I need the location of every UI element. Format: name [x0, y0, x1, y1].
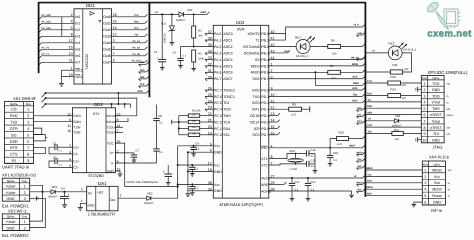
svg-text:Кон: Кон — [423, 162, 428, 166]
svg-text:JTAG: JTAG — [433, 145, 443, 150]
junction dots above DD2 — [111, 103, 113, 105]
wire riser DD2 top a — [111, 104, 113, 108]
svg-text:+: + — [163, 170, 165, 174]
svg-text:4: 4 — [424, 101, 426, 105]
svg-text:Цепь: Цепь — [10, 102, 18, 106]
wire XS1 DTR-SG loop — [34, 128, 42, 134]
svg-text:5: 5 — [27, 133, 29, 137]
wire JTAG net stub at mid bus — [139, 63, 147, 65]
svg-text:TCK: TCK — [223, 120, 231, 124]
svg-text:OE2: OE2 — [75, 75, 82, 79]
svg-text:SCL: SCL — [357, 113, 362, 116]
svg-text:330: 330 — [404, 68, 409, 71]
svg-text:XT1: XT1 — [261, 157, 267, 161]
svg-text:C2+: C2+ — [73, 159, 79, 163]
svg-text:Vcc: Vcc — [214, 183, 220, 187]
svg-text:PC.4: PC.4 — [214, 108, 222, 112]
capacitor C6 — [181, 46, 194, 48]
svg-text:PC.3: PC.3 — [214, 114, 222, 118]
buffer DD1 74AC244 body — [74, 9, 112, 84]
wire DD2 V- to capacitor C8 line — [115, 162, 156, 164]
wire PA.2 from divider — [194, 46, 214, 48]
svg-text:100: 100 — [331, 77, 336, 80]
resistor 10k pull-up row 1 — [179, 121, 189, 123]
svg-text:GND: GND — [7, 197, 15, 201]
svg-text:ZQ1: ZQ1 — [290, 149, 296, 153]
svg-text:ADC2: ADC2 — [223, 45, 232, 49]
svg-text:RXD: RXD — [352, 87, 357, 90]
svg-text:TDO: TDO — [134, 27, 139, 30]
ground tick on SG loop — [45, 137, 47, 139]
wire DD2 V+ with capacitor — [115, 152, 134, 154]
DD1 pin 8 In3 wire from bus — [42, 35, 74, 37]
svg-text:PD.4: PD.4 — [261, 114, 269, 118]
svg-text:1: 1 — [424, 82, 426, 86]
svg-text:0.1: 0.1 — [159, 151, 163, 154]
svg-text:11: 11 — [69, 59, 73, 63]
svg-text:out: out — [448, 169, 452, 172]
svg-text:TDI: TDI — [134, 33, 138, 36]
svg-text:1: 1 — [24, 220, 26, 224]
svg-text:CTS: CTS — [10, 153, 18, 157]
svg-text:+UB: +UB — [357, 32, 362, 35]
svg-text:DD3: DD3 — [236, 20, 245, 25]
DD1 pin 3 Out4 wire to bus label — [112, 42, 146, 44]
svg-text:0.1: 0.1 — [194, 187, 198, 190]
svg-text:Out0: Out0 — [103, 15, 111, 19]
svg-text:8: 8 — [71, 33, 73, 37]
XP3 row 1 TCK — [421, 85, 444, 87]
svg-text:+Uпит: +Uпит — [5, 185, 16, 189]
svg-text:Vcc: Vcc — [214, 163, 220, 167]
svg-text:RI: RI — [12, 159, 16, 163]
svg-text:nTRST: nTRST — [430, 126, 442, 130]
node XS1 net 2 junction with diagonal — [45, 97, 47, 99]
XP1 row GND pin 3 — [2, 200, 29, 202]
top power/bus rail wire — [39, 2, 366, 4]
capacitor C1 — [57, 146, 72, 148]
wire DD2 top link — [94, 92, 96, 94]
svg-text:TOSC1: TOSC1 — [223, 95, 235, 99]
svg-text:ADC7: ADC7 — [223, 77, 232, 81]
DD1 pin 7 Out6 wire to bus label — [112, 55, 146, 57]
svg-text:VTr: VTr — [368, 99, 372, 102]
svg-text:TMS: TMS — [139, 76, 144, 79]
wire PD.0 RXD to bus — [269, 89, 363, 91]
XS1 row CTS pin 8 — [5, 156, 34, 158]
svg-text:1: 1 — [24, 185, 26, 189]
cxem.net watermark logo — [426, 0, 461, 29]
XP3 GND row2 ground — [418, 88, 422, 90]
svg-text:MISO: MISO — [356, 151, 362, 154]
svg-text:L78L05ABUTR: L78L05ABUTR — [88, 212, 115, 217]
svg-text:R6: R6 — [331, 39, 335, 43]
svg-text:HL2: HL2 — [389, 41, 395, 45]
wire XP4 Sck — [365, 182, 422, 184]
wire TMS — [365, 107, 421, 109]
svg-text:TxD: TxD — [10, 121, 17, 125]
svg-text:in/out: in/out — [447, 114, 453, 117]
wire PD.7 stub — [269, 134, 278, 136]
svg-text:In6: In6 — [75, 54, 80, 58]
diode VD1 SM4007 — [49, 191, 52, 193]
svg-text:R11: R11 — [393, 63, 398, 67]
wire XP2 +U to VD1 node — [30, 192, 43, 221]
wire DD1 input column jog — [61, 17, 63, 37]
svg-text:C13: C13 — [310, 181, 315, 184]
wire Vcc pin — [178, 183, 214, 185]
wire PB.0 PB.1 to bus riser — [269, 27, 363, 34]
wire DA1 GND to ground — [80, 203, 86, 207]
svg-text:GND: GND — [433, 200, 441, 204]
svg-text:Кон: Кон — [22, 179, 27, 183]
capacitor C8 — [153, 117, 159, 119]
svg-text:In1: In1 — [75, 22, 80, 26]
XP3 row 3 TDO — [421, 98, 444, 100]
svg-text:C6: C6 — [173, 52, 177, 55]
svg-text:3: 3 — [424, 181, 426, 185]
wire below C8b — [156, 151, 158, 163]
voltage regulator DA1 L78L05 body — [87, 186, 118, 211]
svg-text:PB.2: PB.2 — [261, 45, 269, 49]
wire XP4 Reset — [365, 195, 422, 197]
svg-text:Кон: Кон — [22, 215, 27, 219]
svg-text:TMS: TMS — [432, 107, 440, 111]
svg-text:KP-3216_2: KP-3216_2 — [296, 55, 309, 58]
svg-text:0.1: 0.1 — [194, 168, 198, 171]
svg-text:12: 12 — [67, 112, 71, 116]
svg-text:MOSI: MOSI — [352, 63, 358, 66]
svg-text:T1: T1 — [256, 38, 260, 42]
svg-text:VD5: VD5 — [395, 115, 401, 118]
bus stub net Rst — [357, 191, 363, 193]
svg-text:INT0: INT0 — [352, 100, 358, 103]
wire XT1 — [269, 153, 307, 158]
far-left address bus — [38, 2, 40, 73]
bus stub net MOSI — [357, 184, 363, 186]
resistor R12 220 on TCK — [365, 82, 387, 84]
svg-text:C5: C5 — [154, 51, 158, 54]
svg-text:17: 17 — [69, 39, 73, 43]
svg-text:Out1: Out1 — [103, 22, 111, 26]
svg-text:V-: V- — [111, 161, 114, 165]
GND rail left of DD3 — [187, 152, 189, 194]
svg-text:4.7k: 4.7k — [291, 113, 297, 116]
svg-text:7: 7 — [27, 146, 29, 150]
svg-text:Vsup: Vsup — [432, 120, 440, 124]
resistor R2 150k divider bottom — [192, 50, 196, 62]
capacitor C11 — [191, 183, 193, 185]
capacitor C13 — [307, 178, 309, 183]
svg-text:PA.6: PA.6 — [214, 71, 221, 75]
svg-text:C1: C1 — [53, 142, 57, 146]
svg-text:PA_AD1: PA_AD1 — [42, 20, 52, 23]
capacitor C14 — [306, 150, 308, 156]
svg-text:9: 9 — [113, 59, 115, 63]
svg-text:nTR: nTR — [367, 124, 372, 127]
svg-text:TDO: TDO — [139, 69, 144, 72]
wire PB.4 to bus — [269, 58, 363, 60]
DD1 pin 13 In6 wire from bus — [42, 55, 74, 57]
wire AVCC to bus — [269, 177, 363, 179]
DD1 pin 11 In7 wire from bus — [42, 61, 74, 63]
XP3 row 8 nTRST — [421, 129, 444, 131]
svg-text:4: 4 — [424, 188, 426, 192]
svg-text:PC1: PC1 — [357, 120, 362, 123]
svg-text:PD.0: PD.0 — [261, 88, 269, 92]
svg-text:PA.2: PA.2 — [214, 45, 221, 49]
node XS1 net 3 junction with diagonal — [45, 103, 47, 105]
svg-text:3: 3 — [424, 94, 426, 98]
svg-text:2: 2 — [71, 13, 73, 17]
svg-text:6: 6 — [424, 113, 426, 117]
svg-text:C7: C7 — [136, 149, 140, 153]
wire PD.1 TXD to bus — [269, 95, 363, 97]
XP3 row 6 nSRST — [421, 117, 444, 119]
svg-text:4: 4 — [27, 127, 29, 131]
svg-text:Ext. POWER2: Ext. POWER2 — [2, 233, 29, 238]
svg-text:Rst: Rst — [358, 188, 362, 191]
svg-text:6: 6 — [71, 26, 73, 30]
XP4 row 6 GND — [422, 204, 445, 206]
wire XS1 RTS-CTS loop — [34, 147, 46, 153]
svg-text:XP4 PLD-6: XP4 PLD-6 — [429, 155, 450, 160]
capacitor C16 on reset — [329, 148, 331, 156]
svg-text:VD4: VD4 — [187, 8, 193, 12]
wire XS1 SG-DSR loop — [34, 135, 46, 141]
svg-text:PA.0: PA.0 — [214, 32, 221, 36]
svg-text:1: 1 — [424, 168, 426, 172]
svg-text:TDI: TDI — [433, 132, 439, 136]
svg-text:2: 2 — [24, 226, 26, 230]
wire PD.5 stub — [269, 121, 278, 123]
svg-text:PA.3: PA.3 — [214, 51, 221, 55]
svg-text:ADC4: ADC4 — [223, 58, 232, 62]
svg-text:T1IN: T1IN — [73, 126, 81, 130]
svg-text:In0: In0 — [75, 15, 80, 19]
svg-text:TDO: TDO — [367, 93, 372, 96]
svg-text:3: 3 — [27, 121, 29, 125]
svg-text:PD.2: PD.2 — [261, 101, 269, 105]
XP3 row 5 TMS — [421, 110, 444, 112]
svg-text:C16: C16 — [333, 151, 339, 155]
svg-text:PA_AD2: PA_AD2 — [42, 27, 52, 30]
svg-text:2: 2 — [424, 175, 426, 179]
svg-text:Vcc: Vcc — [214, 144, 220, 148]
connector XS1 table — [5, 102, 34, 164]
svg-text:In7: In7 — [75, 61, 80, 65]
wire XP1 GND pin3 — [30, 197, 37, 199]
wire XP2 GND — [30, 198, 46, 227]
wire PB.6 MISO to R7 — [269, 71, 328, 73]
wire XS1 net1 to mid bus — [46, 92, 147, 94]
svg-text:Цепь: Цепь — [7, 179, 15, 183]
bus stub net SCL — [357, 116, 363, 118]
svg-text:Кон: Кон — [422, 76, 427, 80]
svg-text:GND: GND — [214, 151, 222, 155]
svg-text:CD: CD — [11, 108, 17, 112]
DD1 pin 4 In1 wire from bus — [42, 22, 74, 24]
bus stub net x — [357, 58, 363, 60]
svg-text:C9: C9 — [195, 142, 199, 146]
wire Vcc pin — [178, 164, 214, 166]
svg-text:MISO: MISO — [366, 167, 372, 170]
svg-text:R13: R13 — [391, 88, 397, 92]
svg-text:TDO: TDO — [432, 94, 440, 98]
wire OE common — [61, 70, 63, 81]
svg-text:TCK: TCK — [134, 14, 139, 17]
wire PA stub — [205, 65, 213, 67]
capacitor C2 — [57, 160, 72, 162]
svg-text:PA_AD0: PA_AD0 — [42, 14, 52, 17]
svg-text:RST: RST — [261, 146, 268, 150]
capacitor C5 electrolytic — [161, 14, 163, 59]
svg-text:V+: V+ — [110, 151, 114, 155]
svg-text:SDA: SDA — [223, 127, 231, 131]
XP4 row 4 MOSI — [422, 191, 445, 193]
resistor R1 30k divider top — [193, 14, 195, 26]
svg-text:1: 1 — [71, 67, 73, 71]
wire R10 to bus — [349, 138, 363, 140]
wire bus to HL2 — [365, 52, 388, 54]
svg-text:OC1A: OC1A — [250, 120, 260, 124]
svg-text:PB.5: PB.5 — [261, 64, 269, 68]
svg-text:R1IN: R1IN — [73, 114, 81, 118]
wire PA stub — [205, 71, 213, 73]
svg-text:220: 220 — [395, 138, 400, 141]
svg-text:2: 2 — [424, 88, 426, 92]
svg-text:Цепь: Цепь — [432, 76, 440, 80]
svg-text:5: 5 — [424, 194, 426, 198]
svg-text:PC.2: PC.2 — [214, 120, 222, 124]
svg-text:C1+: C1+ — [73, 146, 79, 150]
svg-text:SM5817: SM5817 — [176, 19, 186, 22]
svg-text:PB.4: PB.4 — [261, 58, 269, 62]
wire R6 to bus — [341, 46, 363, 48]
bus stub net MISO — [357, 154, 363, 156]
connector XP1 table — [2, 178, 29, 201]
svg-text:DSR: DSR — [10, 140, 18, 144]
wire riser DD2 top c — [124, 104, 126, 108]
svg-text:PD.7: PD.7 — [261, 133, 269, 137]
svg-text:GND: GND — [7, 226, 15, 230]
ground for DD1 OE pins — [61, 82, 63, 84]
svg-text:SM4007: SM4007 — [48, 196, 58, 199]
svg-text:PA_A5: PA_A5 — [132, 46, 140, 49]
wire AGND to ground — [269, 191, 352, 195]
wire JTAG net stub at mid bus — [139, 85, 147, 87]
svg-text:R14: R14 — [394, 129, 399, 132]
XP4 row 5 Reset — [422, 198, 445, 200]
svg-text:PA_A4: PA_A4 — [132, 40, 140, 43]
svg-text:SDA: SDA — [357, 107, 362, 110]
svg-text:30k: 30k — [198, 34, 203, 37]
wire DD2 VCC to +5 rail — [115, 143, 124, 186]
svg-text:5: 5 — [113, 46, 115, 50]
svg-text:+UBT: +UBT — [200, 11, 207, 14]
DD1 pin 2 In0 wire from bus — [42, 16, 74, 18]
svg-text:nRST: nRST — [349, 145, 356, 148]
wire PC stub — [205, 102, 213, 104]
wire XP4 MOSI — [365, 188, 422, 190]
svg-text:ADC3: ADC3 — [223, 51, 232, 55]
svg-text:cxem.net: cxem.net — [427, 28, 472, 39]
resistor R11 330 — [390, 70, 402, 74]
svg-text:ADC6: ADC6 — [223, 71, 232, 75]
junction to C5 — [161, 13, 163, 15]
svg-text:MOSI: MOSI — [356, 181, 362, 184]
svg-text:T2IN: T2IN — [73, 131, 81, 135]
wire GND pin — [188, 170, 213, 172]
svg-text:ST232BD: ST232BD — [88, 174, 104, 178]
svg-text:7.3728: 7.3728 — [289, 168, 297, 171]
svg-text:XP1 K375(DJK-02): XP1 K375(DJK-02) — [2, 173, 37, 178]
svg-text:7: 7 — [113, 52, 115, 56]
wire HL2 loop to R11 — [402, 53, 411, 72]
svg-text:XP2 WF-2: XP2 WF-2 — [8, 208, 27, 213]
svg-text:19: 19 — [69, 73, 73, 77]
svg-text:0.1: 0.1 — [333, 159, 337, 162]
svg-text:PA.1: PA.1 — [214, 38, 221, 42]
XP4 row 2 Vcc — [422, 178, 445, 180]
svg-text:PB.0: PB.0 — [261, 32, 269, 36]
svg-text:PB.1: PB.1 — [261, 38, 269, 42]
svg-text:RXD: RXD — [137, 90, 142, 93]
svg-text:MISO: MISO — [432, 168, 441, 172]
svg-text:R1: R1 — [198, 28, 202, 32]
XP1 row +Uпит pin 2 — [2, 194, 29, 196]
ground of GND rail — [185, 193, 190, 195]
XP4 row 1 MISO — [422, 172, 445, 174]
svg-text:TCK: TCK — [140, 83, 145, 86]
wire PB.5 MOSI to bus — [269, 65, 363, 67]
XP3 row 10 GND — [421, 142, 444, 144]
wire XP1 +U pin1 — [30, 185, 43, 192]
svg-text:4.7k: 4.7k — [337, 143, 343, 146]
connector XP4 table — [422, 161, 445, 205]
svg-text:GND: GND — [88, 204, 96, 208]
wire PA stub — [205, 33, 213, 35]
svg-text:Out7: Out7 — [103, 61, 111, 65]
svg-text:PC_T0: PC_T0 — [42, 46, 50, 49]
XP3 row 4 VTref — [421, 104, 444, 106]
svg-text:PD.1: PD.1 — [261, 95, 269, 99]
svg-text:ADC0: ADC0 — [223, 32, 232, 36]
svg-text:SCL: SCL — [223, 133, 230, 137]
svg-text:R10: R10 — [339, 130, 345, 134]
XP3 row 2 GND — [421, 91, 444, 93]
svg-text:Out2: Out2 — [103, 28, 111, 32]
svg-text:10: 10 — [67, 129, 71, 133]
wire MISO branch — [315, 72, 362, 85]
svg-text:ICP: ICP — [254, 127, 261, 131]
diode VD2 SM4007 — [147, 196, 151, 200]
svg-text:PA_A6: PA_A6 — [132, 53, 140, 56]
svg-text:Out5: Out5 — [103, 48, 111, 52]
svg-text:nSR: nSR — [367, 111, 372, 114]
svg-text:1: 1 — [27, 108, 29, 112]
svg-text:9: 9 — [27, 159, 29, 163]
wire crystal caps to ground — [309, 152, 315, 154]
wire XP4 Vcc — [365, 175, 422, 177]
resistor R14 220 on TDI — [365, 132, 392, 134]
svg-text:DD1: DD1 — [86, 3, 95, 8]
svg-text:6: 6 — [424, 200, 426, 204]
wire pull-up common rail — [178, 116, 180, 135]
svg-text:DTR: DTR — [10, 127, 18, 131]
wire pull-up rail to +5 tick — [172, 121, 179, 123]
svg-text:RST: RST — [367, 193, 372, 196]
